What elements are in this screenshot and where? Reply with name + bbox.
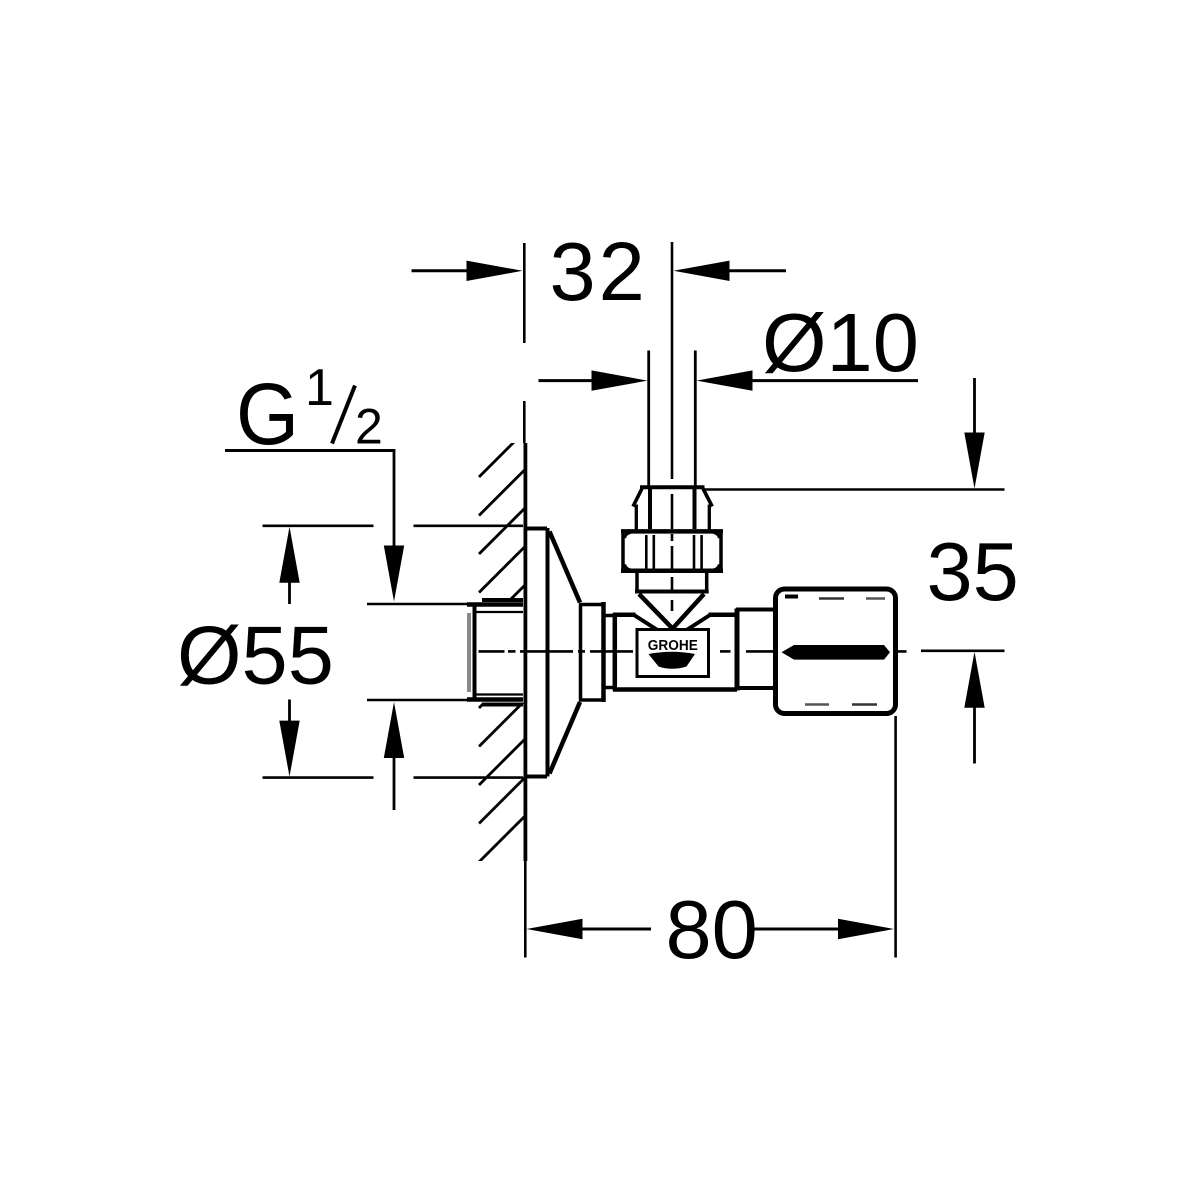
wall hatching: [479, 431, 525, 862]
svg-text:2: 2: [355, 399, 383, 455]
Ø55 arrow up: [279, 527, 299, 583]
svg-text:80: 80: [666, 883, 758, 976]
dimension 35 top line: [705, 488, 1005, 491]
G 1/2 leader line: [225, 449, 395, 452]
compression nut hex: [621, 531, 723, 570]
thread G1/2 nipple: [467, 600, 523, 705]
svg-text:Ø10: Ø10: [762, 296, 919, 389]
svg-text:35: 35: [927, 525, 1019, 618]
GROHE bowl mark: [649, 652, 696, 669]
svg-text:G: G: [236, 366, 299, 463]
Ø55 bottom extension line: [263, 776, 374, 779]
compression cap top: [640, 485, 705, 489]
svg-text:32: 32: [550, 225, 648, 318]
handle top chamfer segments: [785, 595, 798, 599]
handle bottom chamfer segments: [805, 703, 829, 706]
dimension 32 arrow right: [674, 261, 730, 281]
G 1/2 leader arrow down: [384, 546, 404, 602]
valve body: [613, 609, 737, 691]
dimension 80 line left: [582, 928, 651, 931]
GROHE logo box: [637, 630, 709, 677]
dimension 80 line right: [753, 928, 839, 931]
thread top extension line: [367, 603, 467, 606]
pipe left line / extension: [647, 351, 650, 489]
dimension 35 arrow down: [973, 378, 976, 434]
dimension Ø10 line right: [750, 379, 918, 382]
svg-text:GROHE: GROHE: [648, 638, 698, 654]
thread bottom extension line: [367, 699, 467, 702]
wall extension line down (for 80 dim): [524, 861, 527, 958]
dimension 35 arrow up: [973, 707, 976, 764]
handle extension line (for 80 dim): [894, 716, 897, 958]
dimension 35 bottom line: [921, 649, 1005, 652]
right connector: [736, 608, 775, 612]
handle slot: [782, 645, 891, 660]
pipe right line / extension: [694, 351, 697, 489]
escutcheon flange plate: [525, 528, 548, 777]
funnel V into body: [639, 594, 704, 628]
wall extension line up (for 32 dim): [523, 243, 526, 343]
handle: [776, 589, 896, 714]
funnel lower diagonals: [634, 615, 659, 631]
pipe inside fitting: [648, 489, 652, 529]
dimension Ø10 line left: [539, 379, 595, 382]
G 1/2 lower arrow up: [384, 702, 404, 758]
main centerline horizontal: [479, 650, 907, 653]
dimension Ø10 arrow left: [592, 370, 648, 390]
dimension 80 arrow right: [838, 919, 894, 939]
dimension 32 arrow left: [467, 261, 523, 281]
wall line: [524, 443, 528, 861]
svg-text:Ø55: Ø55: [177, 609, 334, 702]
dimension 32 line left: [412, 269, 471, 272]
Ø55 top extension line: [263, 524, 374, 527]
Ø55 arrow down: [279, 721, 299, 777]
dimension 32 line right: [727, 269, 786, 272]
upper collar: [635, 505, 638, 530]
dimension Ø10 arrow right: [697, 370, 753, 390]
escutcheon cone: [550, 532, 581, 603]
pipe centerline vertical: [671, 242, 674, 611]
dimension 80 arrow left: [527, 919, 583, 939]
neck between ring and body: [604, 614, 617, 618]
lower collar: [635, 573, 709, 592]
escutcheon front ring: [579, 602, 604, 702]
svg-text:1: 1: [305, 359, 334, 417]
